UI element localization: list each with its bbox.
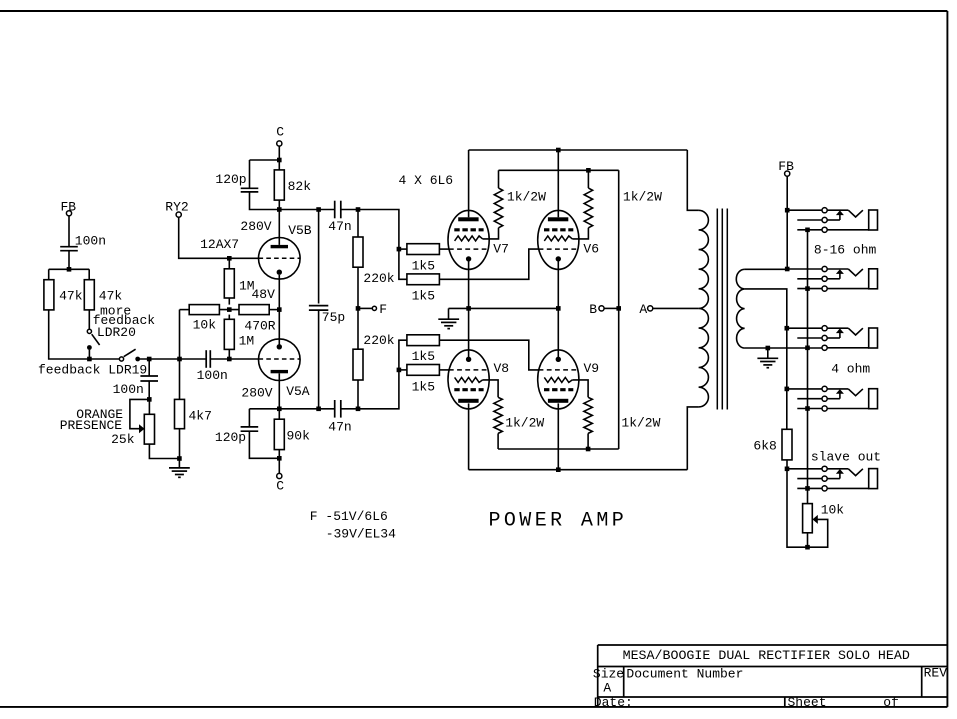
terminal RY2: [176, 212, 181, 217]
wire: [448, 308, 450, 319]
svg-text:Sheet: Sheet: [788, 695, 827, 710]
resistor 47k right: [84, 280, 94, 310]
junction: [356, 407, 361, 412]
svg-text:A: A: [639, 302, 647, 317]
switch arm LDR19: [124, 349, 136, 357]
svg-text:47n: 47n: [328, 420, 351, 435]
resistor 1M lower: [224, 319, 234, 349]
svg-text:1k/2W: 1k/2W: [505, 415, 544, 430]
wire screen rail bottom: [498, 448, 619, 450]
transformer core: [717, 209, 727, 410]
wire: [180, 309, 190, 311]
svg-text:47k: 47k: [99, 288, 123, 303]
resistor 1k5 d: [407, 365, 440, 376]
junction: [87, 357, 92, 362]
wire: [228, 349, 230, 359]
junction: [397, 368, 402, 373]
wire: [399, 369, 407, 371]
wire: [249, 408, 318, 410]
transformer secondary winding: [736, 269, 744, 348]
wire: [278, 450, 280, 459]
switch pole LDR19: [135, 357, 140, 362]
wire: [318, 310, 320, 409]
wire: [498, 170, 500, 188]
junction: [277, 456, 282, 461]
wire: [219, 309, 239, 311]
junction: [277, 158, 282, 163]
wire: [249, 160, 251, 188]
wire: [807, 533, 809, 547]
resistor 10k: [189, 305, 219, 315]
svg-text:90k: 90k: [287, 429, 311, 444]
switch contact LDR20: [87, 329, 91, 333]
svg-text:4k7: 4k7: [189, 408, 212, 423]
svg-text:10k: 10k: [821, 502, 845, 517]
wire grid V7: [439, 248, 449, 250]
junction: [177, 357, 182, 362]
wire: [767, 348, 769, 358]
wire: [786, 460, 788, 469]
junction: [227, 357, 232, 362]
wire FB line: [786, 176, 788, 269]
svg-text:C: C: [276, 479, 284, 494]
terminal C upper: [277, 141, 282, 146]
resistor 470R: [239, 305, 269, 315]
svg-text:Document Number: Document Number: [626, 666, 743, 681]
svg-text:REV: REV: [924, 666, 948, 681]
wire: [341, 408, 358, 410]
jack slave out: [787, 466, 878, 491]
svg-text:4 ohm: 4 ohm: [831, 361, 870, 376]
wire plate rail bottom: [469, 469, 688, 471]
junction: [556, 467, 561, 472]
wire: [572, 380, 588, 397]
wire plate rail top: [469, 149, 688, 151]
svg-text:Date:: Date:: [594, 695, 633, 710]
wire: [49, 310, 120, 359]
junction: [316, 207, 321, 212]
svg-text:MESA/BOOGIE DUAL RECTIFIER SOL: MESA/BOOGIE DUAL RECTIFIER SOLO HEAD: [623, 648, 910, 663]
svg-text:1k/2W: 1k/2W: [507, 189, 546, 204]
wire cathode V7/V8: [468, 259, 470, 359]
wire: [483, 380, 499, 397]
wire: [497, 433, 499, 449]
potentiometer wiper arrow 25k: [139, 424, 145, 433]
svg-text:1k/2W: 1k/2W: [623, 189, 662, 204]
wire: [248, 409, 250, 427]
node F: [372, 306, 376, 310]
svg-text:LDR20: LDR20: [97, 325, 136, 340]
svg-text:F: F: [379, 302, 387, 317]
wire secondary bottom / ground rail: [745, 347, 822, 349]
capacitor 100n feedback: [60, 247, 78, 251]
beam tetrode V8: [448, 350, 489, 409]
wire: [687, 407, 698, 470]
wire: [358, 307, 372, 309]
wire cathode V6/V9: [557, 259, 559, 359]
svg-text:47k: 47k: [59, 288, 83, 303]
junction: [805, 228, 810, 233]
wire: [179, 217, 227, 258]
junction: [227, 307, 232, 312]
svg-text:75p: 75p: [322, 310, 345, 325]
jack 8-16 ohm 2: [787, 266, 878, 291]
wire: [48, 269, 50, 279]
wire: [249, 431, 279, 458]
svg-text:280V: 280V: [240, 219, 271, 234]
wire: [278, 146, 280, 160]
wire: [357, 210, 359, 238]
junction: [586, 168, 591, 173]
wire: [269, 309, 279, 311]
junction: [586, 447, 591, 452]
junction: [277, 407, 282, 412]
svg-text:48V: 48V: [252, 287, 276, 302]
junction: [785, 326, 790, 331]
wire grid V6: [439, 249, 539, 279]
wire: [587, 433, 589, 449]
wire: [250, 192, 335, 210]
wire: [319, 408, 335, 410]
wire plate V7: [468, 150, 470, 217]
svg-text:8-16 ohm: 8-16 ohm: [814, 242, 877, 257]
transformer primary winding: [699, 210, 709, 407]
svg-text:120p: 120p: [215, 172, 246, 187]
potentiometer 25k ORANGE PRESENCE: [144, 414, 154, 444]
capacitor 75p: [309, 306, 328, 311]
wire: [604, 307, 619, 309]
wire: [572, 228, 588, 239]
junction: [316, 407, 321, 412]
junction: [556, 148, 561, 153]
wire: [228, 298, 230, 305]
svg-text:1k5: 1k5: [412, 289, 435, 304]
resistor 90k: [274, 419, 284, 449]
junction: [805, 545, 810, 550]
wire: [399, 248, 407, 250]
junction: [805, 406, 810, 411]
resistor 1k/2W V8 screen: [494, 397, 502, 433]
wire cathode: [278, 275, 280, 347]
capacitor 100n presence: [140, 376, 158, 381]
wire plate V6: [557, 150, 559, 217]
wire: [210, 358, 258, 360]
svg-text:C: C: [276, 125, 284, 140]
resistor 1k5 b: [407, 274, 440, 285]
junction: [67, 267, 72, 272]
junction: [466, 306, 471, 311]
svg-text:82k: 82k: [288, 179, 312, 194]
node B: [599, 306, 604, 311]
junction: [785, 208, 790, 213]
svg-text:100n: 100n: [197, 368, 228, 383]
wire: [68, 251, 70, 270]
svg-text:4 X 6L6: 4 X 6L6: [399, 173, 454, 188]
jack 8-16 ohm 1: [787, 208, 878, 233]
junction: [397, 247, 402, 252]
junction: [147, 397, 152, 402]
wire: [587, 170, 589, 188]
wire: [787, 469, 828, 547]
svg-text:V5A: V5A: [286, 384, 310, 399]
beam tetrode V6: [538, 210, 579, 269]
beam tetrode V7: [448, 210, 489, 269]
svg-text:6k8: 6k8: [753, 438, 776, 453]
wire: [88, 350, 90, 359]
jack 4 ohm 1: [787, 326, 878, 351]
svg-text:12AX7: 12AX7: [200, 237, 239, 252]
svg-text:10k: 10k: [193, 318, 217, 333]
svg-text:220k: 220k: [363, 333, 394, 348]
wire: [148, 359, 150, 376]
svg-text:280V: 280V: [241, 385, 272, 400]
junction: [805, 486, 810, 491]
svg-text:V5B: V5B: [288, 223, 312, 238]
svg-text:A: A: [603, 681, 611, 696]
junction: [616, 306, 621, 311]
wire: [148, 399, 150, 414]
wire: [318, 210, 320, 304]
wire: [140, 358, 206, 360]
title block: [598, 645, 948, 707]
wire cathode rail: [449, 307, 559, 309]
junction: [766, 346, 771, 351]
capacitor 47n upper: [335, 201, 341, 219]
triode V5B: [259, 237, 301, 279]
wire grid V9: [439, 340, 539, 370]
svg-text:100n: 100n: [75, 233, 106, 248]
svg-text:V6: V6: [583, 242, 599, 257]
junction: [556, 306, 561, 311]
wire: [278, 160, 280, 170]
wire: [653, 307, 699, 309]
node B vertical wire: [618, 170, 620, 449]
wire: [357, 268, 359, 349]
junction: [805, 286, 810, 291]
wire plate V8: [468, 403, 470, 469]
junction: [147, 357, 152, 362]
wire: [130, 399, 149, 428]
wire: [179, 429, 181, 459]
resistor 1k5 c: [407, 335, 440, 346]
svg-text:slave out: slave out: [811, 449, 881, 464]
svg-text:V7: V7: [493, 242, 509, 257]
junction: [805, 346, 810, 351]
wire: [357, 380, 359, 409]
svg-text:1k5: 1k5: [412, 380, 435, 395]
svg-text:V8: V8: [494, 361, 510, 376]
node A: [648, 306, 653, 311]
svg-text:feedback LDR19: feedback LDR19: [38, 363, 147, 378]
beam tetrode V9: [538, 350, 579, 409]
junction: [177, 456, 182, 461]
junction: [356, 306, 361, 311]
resistor 220k lower: [353, 349, 363, 380]
junction: [785, 267, 790, 272]
ground secondary: [757, 358, 778, 367]
junction: [277, 207, 282, 212]
ground presence: [169, 468, 190, 477]
jack 4 ohm 2: [787, 386, 878, 411]
resistor 1M upper: [224, 269, 234, 298]
potentiometer wiper arrow 10k: [813, 515, 818, 524]
wire: [358, 210, 407, 280]
svg-text:FB: FB: [61, 200, 77, 215]
svg-text:RY2: RY2: [165, 199, 188, 214]
wire: [149, 444, 179, 458]
resistor 1k/2W V7 screen: [494, 188, 502, 228]
resistor 4k7: [175, 399, 185, 428]
resistor 1k/2W V6 screen: [584, 188, 592, 228]
wire: [358, 340, 407, 409]
svg-text:-39V/EL34: -39V/EL34: [326, 527, 396, 542]
svg-text:470R: 470R: [244, 318, 275, 333]
wire: [88, 310, 90, 329]
ground cathode: [438, 319, 459, 328]
switch arm LDR20: [92, 334, 100, 345]
wire: [687, 150, 698, 210]
svg-text:B: B: [589, 302, 597, 317]
switch contact LDR19: [119, 357, 123, 361]
wire: [228, 258, 230, 269]
wire: [278, 200, 280, 209]
resistor 1k/2W V9 screen: [584, 397, 592, 433]
svg-text:1k/2W: 1k/2W: [621, 415, 660, 430]
wire: [278, 409, 280, 419]
potentiometer 10k slave level: [803, 504, 813, 533]
resistor 82k: [274, 170, 284, 200]
svg-text:220k: 220k: [363, 271, 394, 286]
terminal C lower: [277, 473, 282, 478]
junction: [227, 256, 232, 261]
svg-text:V9: V9: [584, 361, 600, 376]
svg-text:100n: 100n: [113, 382, 144, 397]
wire: [228, 315, 230, 320]
wire: [49, 268, 89, 270]
wire: [250, 159, 280, 161]
wire: [88, 269, 90, 279]
wire: [483, 228, 499, 239]
resistor 220k upper: [353, 237, 363, 267]
sleeve ground line: [807, 230, 809, 504]
svg-text:POWER AMP: POWER AMP: [489, 510, 628, 533]
junction: [785, 467, 790, 472]
resistor 1k5 a: [407, 244, 440, 255]
wire secondary 4ohm tap: [745, 289, 787, 429]
capacitor 120p upper: [241, 188, 259, 192]
svg-text:1M: 1M: [239, 333, 255, 348]
capacitor 47n lower: [335, 400, 341, 418]
wire: [148, 381, 150, 399]
wire: [179, 310, 181, 400]
capacitor 120p lower: [241, 427, 259, 431]
wire secondary top: [745, 268, 787, 270]
terminal FB left: [66, 211, 71, 216]
wire grid V5B: [227, 257, 259, 259]
wire screen rail top: [499, 169, 619, 171]
wire grid V8: [439, 369, 449, 371]
wire plate V5B: [278, 210, 280, 245]
junction: [785, 387, 790, 392]
svg-text:47n: 47n: [328, 219, 351, 234]
wire plate V5A: [278, 373, 280, 409]
resistor 47k left: [44, 280, 54, 310]
svg-text:of: of: [883, 695, 899, 710]
wire: [178, 459, 180, 468]
wire: [278, 458, 280, 473]
svg-text:Size: Size: [593, 666, 624, 681]
triode V5A: [259, 339, 301, 381]
wire: [341, 209, 358, 211]
junction: [356, 207, 361, 212]
resistor 6k8: [782, 429, 792, 460]
switch pole LDR20: [87, 345, 92, 350]
capacitor 100n coupling: [206, 350, 210, 368]
wire plate V9: [557, 403, 559, 469]
svg-text:1k5: 1k5: [412, 258, 435, 273]
wire: [68, 216, 70, 247]
svg-text:F -51V/6L6: F -51V/6L6: [310, 509, 388, 524]
junction: [277, 307, 282, 312]
terminal FB right: [785, 171, 790, 176]
svg-text:120p: 120p: [215, 430, 246, 445]
svg-text:25k: 25k: [111, 432, 135, 447]
svg-text:1k5: 1k5: [412, 349, 435, 364]
